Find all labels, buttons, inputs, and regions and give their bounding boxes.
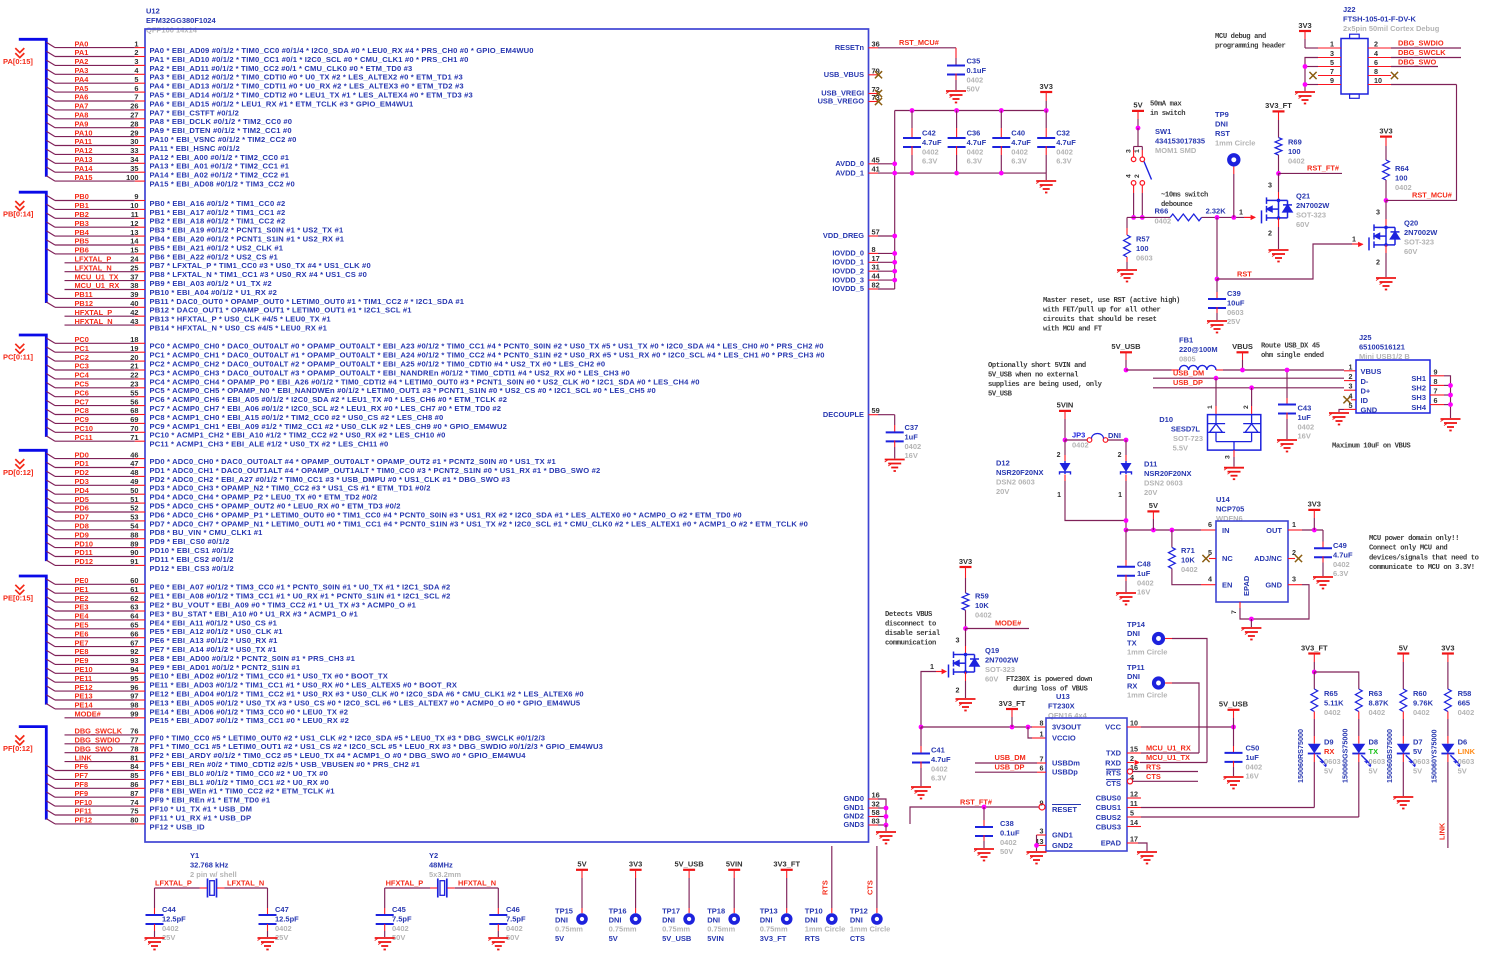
svg-text:93: 93 bbox=[130, 656, 138, 665]
svg-text:3: 3 bbox=[1225, 455, 1232, 459]
svg-text:PD9: PD9 bbox=[75, 530, 89, 539]
svg-text:CTS: CTS bbox=[1106, 779, 1121, 788]
svg-text:2: 2 bbox=[1057, 452, 1061, 459]
svg-text:2: 2 bbox=[1134, 174, 1141, 178]
svg-text:PA10 * EBI_VSNC #0/1/2 * TIM2_: PA10 * EBI_VSNC #0/1/2 * TIM2_CC2 #0 bbox=[150, 135, 297, 144]
svg-text:10: 10 bbox=[1130, 719, 1138, 728]
svg-text:MCU_U1_TX: MCU_U1_TX bbox=[1146, 753, 1190, 762]
svg-text:C35: C35 bbox=[967, 57, 981, 66]
net CTS wire to TP12 bbox=[876, 846, 878, 908]
svg-text:PB11 * DAC0_OUT0 * OPAMP_OUT0: PB11 * DAC0_OUT0 * OPAMP_OUT0 * LETIM0_O… bbox=[150, 297, 465, 306]
svg-text:PB8 * LFXTAL_N * TIM1_CC1 #3 *: PB8 * LFXTAL_N * TIM1_CC1 #3 * US0_RX #4… bbox=[150, 270, 368, 279]
svg-text:6: 6 bbox=[1434, 396, 1438, 405]
svg-text:PA3: PA3 bbox=[75, 66, 89, 75]
svg-text:FTSH-105-01-F-DV-K: FTSH-105-01-F-DV-K bbox=[1343, 15, 1417, 24]
svg-text:38: 38 bbox=[130, 281, 138, 290]
svg-text:PA6 * EBI_AD15 #0/1/2 * LEU1_R: PA6 * EBI_AD15 #0/1/2 * LEU1_RX #1 * ETM… bbox=[150, 99, 414, 108]
svg-text:0.75mm: 0.75mm bbox=[662, 925, 690, 934]
svg-text:PE5 * EBI_A12 #0/1/2 * US0_CLK: PE5 * EBI_A12 #0/1/2 * US0_CLK #1 bbox=[150, 627, 284, 636]
svg-text:Q20: Q20 bbox=[1404, 219, 1418, 228]
svg-text:PD7 * ADC0_CH7 * OPAMP_N1 * LE: PD7 * ADC0_CH7 * OPAMP_N1 * LETIM0_OUT1 … bbox=[150, 519, 809, 528]
bus PC chevron bbox=[15, 344, 24, 354]
svg-text:6.3V: 6.3V bbox=[922, 157, 937, 166]
svg-text:PB4: PB4 bbox=[75, 228, 90, 237]
svg-text:2: 2 bbox=[956, 686, 960, 695]
wire 3V3_FT rail to U13 bbox=[921, 726, 1032, 728]
svg-text:disable serial: disable serial bbox=[885, 630, 941, 638]
svg-text:USB_VBUS: USB_VBUS bbox=[824, 70, 864, 79]
wire Q19 gate to 3V3_FT rail bbox=[921, 672, 936, 728]
svg-text:AVDD_0: AVDD_0 bbox=[835, 159, 864, 168]
svg-text:PC3 * ACMP0_CH3 * DAC0_OUT0ALT: PC3 * ACMP0_CH3 * DAC0_OUT0ALT #3 * OPAM… bbox=[150, 368, 630, 377]
wire pin PF8 bbox=[46, 783, 55, 788]
svg-text:99: 99 bbox=[130, 710, 138, 719]
svg-text:PA11: PA11 bbox=[75, 137, 93, 146]
mcu U12 body bbox=[145, 29, 869, 842]
svg-text:3V3_FT: 3V3_FT bbox=[999, 699, 1026, 708]
svg-text:MCU_U1_TX: MCU_U1_TX bbox=[75, 272, 119, 281]
svg-text:CTS: CTS bbox=[865, 880, 874, 895]
net RST_MCU# wire from RESETn bbox=[878, 47, 956, 49]
wire GND pins trunk bbox=[878, 799, 886, 825]
svg-text:IOVDD_1: IOVDD_1 bbox=[832, 258, 864, 267]
svg-text:PF11: PF11 bbox=[75, 807, 92, 816]
svg-text:16: 16 bbox=[872, 791, 880, 800]
svg-text:PC0 * ACMP0_CH0 * DAC0_OUT0ALT: PC0 * ACMP0_CH0 * DAC0_OUT0ALT #0 * OPAM… bbox=[150, 342, 824, 351]
wire pin PC0 bbox=[46, 338, 55, 343]
wire pin PD1 bbox=[46, 462, 55, 467]
svg-text:7: 7 bbox=[1330, 67, 1334, 76]
wire pin MCU_U1_RX bbox=[65, 289, 135, 291]
no-connect X on USB_VREGI bbox=[875, 90, 882, 97]
svg-text:3V3: 3V3 bbox=[1298, 21, 1311, 30]
crystal Y1 bbox=[207, 879, 209, 898]
svg-text:27: 27 bbox=[130, 111, 138, 120]
wire TP14 to RXD bbox=[1172, 639, 1207, 763]
svg-text:5V: 5V bbox=[1133, 101, 1142, 110]
svg-text:FB1: FB1 bbox=[1179, 336, 1193, 345]
svg-text:TX: TX bbox=[1369, 747, 1379, 756]
testpoint TP18 bbox=[728, 913, 740, 925]
wire pin HFXTAL_N bbox=[65, 324, 135, 326]
svg-text:36: 36 bbox=[872, 39, 880, 48]
capacitor C46 7.5pF bbox=[497, 888, 499, 908]
bus PB chevron bbox=[15, 201, 24, 211]
svg-text:46: 46 bbox=[130, 450, 138, 459]
svg-text:14: 14 bbox=[1130, 818, 1138, 827]
svg-text:DBG_SWDIO: DBG_SWDIO bbox=[75, 736, 121, 745]
svg-text:2: 2 bbox=[1268, 229, 1272, 238]
svg-text:7: 7 bbox=[1040, 755, 1044, 764]
wire pin PA4 bbox=[46, 78, 55, 83]
svg-text:3: 3 bbox=[1376, 208, 1380, 217]
svg-text:USBDp: USBDp bbox=[1052, 768, 1078, 777]
svg-text:PD5: PD5 bbox=[75, 495, 89, 504]
svg-text:6.3V: 6.3V bbox=[1011, 157, 1026, 166]
svg-text:PC10 * ACMP1_CH2 * EBI_A10 #1/: PC10 * ACMP1_CH2 * EBI_A10 #1/2 * TIM2_C… bbox=[150, 431, 446, 440]
svg-text:12.5pF: 12.5pF bbox=[275, 914, 299, 923]
svg-text:1uF: 1uF bbox=[905, 432, 919, 441]
svg-text:PB[0:14]: PB[0:14] bbox=[3, 210, 34, 219]
wire pin PE13 bbox=[46, 695, 55, 700]
svg-text:PC11 * ACMP1_CH3 * EBI_ALE #1/: PC11 * ACMP1_CH3 * EBI_ALE #1/2 * US0_TX… bbox=[150, 440, 389, 449]
svg-text:6: 6 bbox=[1040, 764, 1044, 773]
svg-text:50mA max: 50mA max bbox=[1150, 101, 1182, 109]
svg-text:CBUS1: CBUS1 bbox=[1096, 803, 1121, 812]
svg-text:8: 8 bbox=[872, 245, 876, 254]
testpoint TP12 bbox=[871, 913, 883, 925]
wire pin PA11 bbox=[46, 140, 55, 145]
ground below C49 bbox=[1313, 577, 1333, 589]
wire pin PD3 bbox=[46, 480, 55, 485]
svg-text:PC9: PC9 bbox=[75, 415, 89, 424]
svg-text:5: 5 bbox=[1130, 809, 1134, 818]
svg-text:16V: 16V bbox=[1246, 772, 1259, 781]
svg-text:R60: R60 bbox=[1413, 689, 1427, 698]
svg-text:PE0 * EBI_A07 #0/1/2 * TIM3_CC: PE0 * EBI_A07 #0/1/2 * TIM3_CC0 #1 * PCN… bbox=[150, 583, 451, 592]
svg-text:50: 50 bbox=[130, 486, 138, 495]
svg-text:PA1 * EBI_AD10 #0/1/2 * TIM0_C: PA1 * EBI_AD10 #0/1/2 * TIM0_CC1 #0/1 * … bbox=[150, 55, 469, 64]
svg-text:20V: 20V bbox=[1144, 488, 1157, 497]
wire R71 to EN bbox=[1172, 569, 1201, 585]
svg-text:0402: 0402 bbox=[162, 924, 179, 933]
svg-text:PC5: PC5 bbox=[75, 380, 89, 389]
svg-text:RST_MCU#: RST_MCU# bbox=[899, 38, 939, 47]
svg-text:DBG_SWDIO: DBG_SWDIO bbox=[1398, 39, 1444, 48]
wire IOVDD_5 bbox=[878, 288, 895, 290]
svg-text:PB9 * EBI_A03 #0/1/2 * U1_TX #: PB9 * EBI_A03 #0/1/2 * U1_TX #2 bbox=[150, 279, 272, 288]
svg-text:Master reset, use RST (active: Master reset, use RST (active high) bbox=[1043, 297, 1180, 305]
wire D7 to ground bbox=[1402, 762, 1404, 796]
ground below J22 bbox=[1295, 92, 1315, 104]
svg-text:0402: 0402 bbox=[1288, 157, 1305, 166]
svg-text:DNI: DNI bbox=[850, 916, 863, 925]
svg-text:MCU debug and: MCU debug and bbox=[1215, 33, 1266, 41]
ground below U14 EPAD bbox=[1241, 628, 1261, 640]
svg-text:28: 28 bbox=[130, 119, 138, 128]
svg-text:PE14 * EBI_AD06 #0/1/2 * TIM3_: PE14 * EBI_AD06 #0/1/2 * TIM3_CC0 #0 * L… bbox=[150, 707, 349, 716]
wire pin PC7 bbox=[46, 400, 55, 405]
svg-text:NC: NC bbox=[1222, 554, 1233, 563]
ground below J25 shield bbox=[1441, 419, 1461, 431]
wire pin PB0 bbox=[46, 195, 55, 200]
svg-text:53: 53 bbox=[130, 513, 138, 522]
wire pin PA1 bbox=[46, 51, 55, 56]
wire pin PE0 bbox=[46, 579, 55, 584]
svg-text:PB4 * EBI_A20 #0/1/2 * PCNT1_S: PB4 * EBI_A20 #0/1/2 * PCNT1_S1IN #1 * U… bbox=[150, 235, 345, 244]
svg-text:J22: J22 bbox=[1343, 5, 1356, 14]
svg-text:PD0: PD0 bbox=[75, 450, 89, 459]
svg-text:5: 5 bbox=[134, 75, 138, 84]
svg-text:5V: 5V bbox=[1369, 767, 1378, 776]
svg-text:PD6 * ADC0_CH6 * OPAMP_P1 * LE: PD6 * ADC0_CH6 * OPAMP_P1 * LETIM0_OUT0 … bbox=[150, 510, 742, 519]
svg-text:20V: 20V bbox=[996, 487, 1009, 496]
wire U13 CBUS3 stub bbox=[1127, 826, 1141, 828]
wire pin PA10 bbox=[46, 131, 55, 136]
svg-text:TP17: TP17 bbox=[662, 907, 680, 916]
svg-text:SOT-323: SOT-323 bbox=[985, 665, 1015, 674]
svg-text:1: 1 bbox=[1352, 235, 1356, 244]
svg-text:92: 92 bbox=[130, 647, 138, 656]
wire pin PD9 bbox=[46, 533, 55, 538]
svg-text:8: 8 bbox=[1434, 377, 1438, 386]
svg-text:PB2: PB2 bbox=[75, 210, 89, 219]
no-connect X on USB_VBUS bbox=[875, 71, 882, 78]
net DBG_SWCLK wire bbox=[1391, 57, 1461, 59]
wire pin PD5 bbox=[46, 498, 55, 503]
svg-text:U13: U13 bbox=[1056, 692, 1070, 701]
wire D10 pin2 bbox=[1251, 388, 1253, 406]
svg-text:HFXTAL_N: HFXTAL_N bbox=[75, 317, 113, 326]
svg-text:434153017835: 434153017835 bbox=[1155, 137, 1205, 146]
svg-text:PC8 * ACMP1_CH0 * EBI_A15 #0/1: PC8 * ACMP1_CH0 * EBI_A15 #0/1/2 * TIM2_… bbox=[150, 413, 444, 422]
svg-text:PA13: PA13 bbox=[75, 155, 93, 164]
svg-text:PA8: PA8 bbox=[75, 111, 89, 120]
svg-text:PE[0:15]: PE[0:15] bbox=[3, 594, 34, 603]
svg-text:C39: C39 bbox=[1227, 289, 1241, 298]
svg-text:SOT-723: SOT-723 bbox=[1173, 434, 1203, 443]
bus PA chevron bbox=[15, 48, 24, 58]
svg-text:PD10 * EBI_CS1 #0/1/2: PD10 * EBI_CS1 #0/1/2 bbox=[150, 546, 234, 555]
wire input rail to U14 bbox=[1126, 529, 1201, 531]
svg-text:C50: C50 bbox=[1246, 744, 1260, 753]
bus PE chevron bbox=[15, 585, 24, 595]
svg-text:68: 68 bbox=[130, 406, 138, 415]
svg-text:76: 76 bbox=[130, 727, 138, 736]
wire U13 GND1 GND2 to ground bbox=[1037, 834, 1047, 836]
resistor R59 10K bbox=[962, 593, 969, 610]
svg-text:12: 12 bbox=[1130, 790, 1138, 799]
svg-text:R69: R69 bbox=[1288, 138, 1302, 147]
svg-text:9: 9 bbox=[1330, 76, 1334, 85]
svg-text:3V3: 3V3 bbox=[1441, 643, 1454, 652]
wire pin PD10 bbox=[46, 542, 55, 547]
svg-text:PB5 * EBI_A21 #0/1/2 * US2_CLK: PB5 * EBI_A21 #0/1/2 * US2_CLK #1 bbox=[150, 243, 284, 252]
svg-text:3V3_FT: 3V3_FT bbox=[1301, 643, 1328, 652]
wire R66 to Q21 gate bbox=[1202, 216, 1244, 218]
svg-text:88: 88 bbox=[130, 530, 138, 539]
svg-text:PA3 * EBI_AD12 #0/1/2 * TIM0_C: PA3 * EBI_AD12 #0/1/2 * TIM0_CDTI0 #0 * … bbox=[150, 73, 463, 82]
svg-text:USB_DM: USB_DM bbox=[995, 753, 1026, 762]
svg-text:2.32K: 2.32K bbox=[1206, 207, 1227, 216]
svg-text:MODE#: MODE# bbox=[75, 710, 101, 719]
svg-text:HFXTAL_P: HFXTAL_P bbox=[386, 878, 424, 887]
svg-text:0402: 0402 bbox=[275, 924, 292, 933]
resistor R64 100 bbox=[1383, 160, 1390, 180]
svg-text:PA4: PA4 bbox=[75, 75, 90, 84]
svg-text:29: 29 bbox=[130, 128, 138, 137]
svg-text:PD1 * ADC0_CH1 * DAC0_OUT1ALT: PD1 * ADC0_CH1 * DAC0_OUT1ALT #4 * OPAMP… bbox=[150, 466, 601, 475]
svg-text:3: 3 bbox=[1330, 49, 1334, 58]
wire IOVDD bbox=[878, 261, 895, 263]
svg-text:PE2 * BU_VOUT * EBI_A09 #0 * T: PE2 * BU_VOUT * EBI_A09 #0 * TIM3_CC2 #1… bbox=[150, 601, 417, 610]
svg-text:PB12: PB12 bbox=[75, 299, 94, 308]
svg-text:75: 75 bbox=[130, 807, 138, 816]
svg-text:9: 9 bbox=[134, 192, 138, 201]
no-connect X J22 pin8 bbox=[1391, 72, 1398, 79]
svg-text:RST_FT#: RST_FT# bbox=[1307, 164, 1339, 173]
svg-text:98: 98 bbox=[130, 701, 138, 710]
wire AVDD trunk bbox=[894, 111, 896, 290]
svg-text:78: 78 bbox=[130, 744, 138, 753]
wire pin PD12 bbox=[46, 560, 55, 565]
svg-text:PF[0:12]: PF[0:12] bbox=[3, 744, 33, 753]
svg-text:PC6: PC6 bbox=[75, 388, 89, 397]
svg-text:DSN2 0603: DSN2 0603 bbox=[1144, 479, 1183, 488]
svg-text:PF10 * U1_TX #1 * USB_DM: PF10 * U1_TX #1 * USB_DM bbox=[150, 805, 253, 814]
ground below C50 bbox=[1224, 777, 1244, 789]
wire pin DBG_SWCLK bbox=[65, 734, 135, 736]
svg-text:GND: GND bbox=[1265, 581, 1282, 590]
svg-text:R59: R59 bbox=[975, 592, 989, 601]
svg-text:PE13 * EBI_AD05 #0/1/2 * US0_T: PE13 * EBI_AD05 #0/1/2 * US0_TX #3 * US0… bbox=[150, 698, 581, 707]
svg-text:PD9 * EBI_CS0 #0/1/2: PD9 * EBI_CS0 #0/1/2 bbox=[150, 537, 230, 546]
svg-text:VCCIO: VCCIO bbox=[1052, 734, 1076, 743]
wire U13 RXD to TP14 bbox=[1135, 760, 1140, 765]
svg-text:R57: R57 bbox=[1136, 235, 1150, 244]
svg-text:D10: D10 bbox=[1159, 415, 1173, 424]
wire pin PB1 bbox=[46, 204, 55, 209]
svg-text:ID: ID bbox=[1361, 396, 1369, 405]
svg-text:77: 77 bbox=[130, 736, 138, 745]
svg-text:82: 82 bbox=[872, 281, 880, 290]
svg-text:PE7 * EBI_A14 #0/1/2 * US0_TX: PE7 * EBI_A14 #0/1/2 * US0_TX #1 bbox=[150, 645, 278, 654]
wire pin PD0 bbox=[46, 453, 55, 458]
svg-text:64: 64 bbox=[130, 612, 139, 621]
resistor R71 10K bbox=[1171, 530, 1173, 547]
svg-text:PB10 * EBI_A04 #0/1/2 * U1_RX: PB10 * EBI_A04 #0/1/2 * U1_RX #2 bbox=[150, 288, 278, 297]
svg-text:PA9 * EBI_DTEN #0/1/2 * TIM2_: PA9 * EBI_DTEN #0/1/2 * TIM2_CC1 #0 bbox=[150, 126, 292, 135]
svg-text:PC8: PC8 bbox=[75, 406, 89, 415]
svg-text:PF7: PF7 bbox=[75, 771, 89, 780]
svg-text:PA14 * EBI_A02 #0/1/2 * TIM2_C: PA14 * EBI_A02 #0/1/2 * TIM2_CC2 #1 bbox=[150, 171, 290, 180]
wire VDD_DREG bbox=[878, 235, 895, 237]
wire 3V3_FT to R63 bbox=[1314, 672, 1359, 689]
svg-text:0402: 0402 bbox=[1324, 708, 1341, 717]
ground below D10 bbox=[1224, 468, 1244, 480]
svg-text:C43: C43 bbox=[1298, 404, 1312, 413]
wire pin PE7 bbox=[46, 641, 55, 646]
svg-text:CTS: CTS bbox=[1146, 772, 1161, 781]
capacitor C36 4.7uF bbox=[954, 108, 959, 113]
wire pin PE2 bbox=[46, 597, 55, 602]
svg-text:1mm Circle: 1mm Circle bbox=[1215, 139, 1255, 148]
svg-text:70: 70 bbox=[130, 424, 138, 433]
svg-text:EPAD: EPAD bbox=[1242, 575, 1251, 596]
svg-text:0402: 0402 bbox=[1298, 422, 1315, 431]
wire J22 pins 3-5-9 to ground bbox=[1305, 58, 1318, 92]
svg-text:0402: 0402 bbox=[967, 75, 984, 84]
svg-text:supplies are being used, only: supplies are being used, only bbox=[988, 381, 1103, 389]
svg-text:0603: 0603 bbox=[1324, 757, 1341, 766]
svg-text:2: 2 bbox=[1376, 258, 1380, 267]
svg-text:IN: IN bbox=[1222, 526, 1230, 535]
wire pin PF12 bbox=[46, 819, 55, 824]
wire cap bottom rail bbox=[895, 172, 1046, 174]
wire pin PC1 bbox=[46, 347, 55, 352]
svg-text:95: 95 bbox=[130, 674, 138, 683]
svg-text:R65: R65 bbox=[1324, 689, 1338, 698]
net MODE# wire bbox=[966, 628, 1030, 630]
svg-text:3: 3 bbox=[1292, 575, 1296, 584]
svg-text:in switch: in switch bbox=[1150, 110, 1185, 118]
svg-text:1: 1 bbox=[1040, 730, 1044, 739]
ground below C43 bbox=[1277, 440, 1297, 452]
svg-text:8.87K: 8.87K bbox=[1369, 699, 1390, 708]
testpoint TP17 bbox=[683, 913, 695, 925]
wire D12 to input rail bbox=[1065, 481, 1126, 521]
svg-text:34: 34 bbox=[130, 155, 139, 164]
svg-text:4.7uF: 4.7uF bbox=[1333, 550, 1353, 559]
svg-text:AVDD_1: AVDD_1 bbox=[835, 168, 864, 177]
svg-text:4.7uF: 4.7uF bbox=[922, 138, 942, 147]
svg-text:USB_DP: USB_DP bbox=[995, 762, 1025, 771]
resistor R60 9.76K bbox=[1400, 689, 1407, 712]
svg-text:PF7 * EBI_BL1 #0/1/2 * TIM0_CC: PF7 * EBI_BL1 #0/1/2 * TIM0_CC1 #2 * U0_… bbox=[150, 778, 329, 787]
svg-text:programming header: programming header bbox=[1215, 43, 1286, 51]
svg-text:19: 19 bbox=[130, 344, 138, 353]
svg-text:31: 31 bbox=[872, 263, 880, 272]
svg-text:2: 2 bbox=[1243, 405, 1250, 409]
svg-text:150060RS75000: 150060RS75000 bbox=[1296, 729, 1305, 783]
wire pin PA2 bbox=[46, 60, 55, 65]
svg-text:PA7 * EBI_CSTFT #0/1/2: PA7 * EBI_CSTFT #0/1/2 bbox=[150, 108, 239, 117]
svg-text:100: 100 bbox=[1395, 174, 1408, 183]
svg-text:0402: 0402 bbox=[975, 611, 992, 620]
led D9 bbox=[1313, 712, 1315, 720]
svg-text:PB0 * EBI_A16 #0/1/2 * TIM1_CC: PB0 * EBI_A16 #0/1/2 * TIM1_CC0 #2 bbox=[150, 199, 286, 208]
mcu inside pin functions port PA bbox=[150, 46, 534, 189]
svg-text:PB6: PB6 bbox=[75, 246, 89, 255]
svg-text:RESET: RESET bbox=[1052, 805, 1077, 814]
svg-text:47: 47 bbox=[130, 459, 138, 468]
svg-text:C46: C46 bbox=[506, 905, 520, 914]
net DBG_SWDIO wire bbox=[1391, 47, 1461, 49]
svg-text:5V_USB: 5V_USB bbox=[988, 391, 1013, 399]
wire U13 VCC to 5V_USB bbox=[1127, 726, 1141, 728]
wire D11 to input rail bbox=[1125, 481, 1127, 530]
svg-text:MCU_U1_RX: MCU_U1_RX bbox=[1146, 743, 1191, 752]
svg-text:94: 94 bbox=[130, 665, 139, 674]
svg-text:3V3_FT: 3V3_FT bbox=[760, 934, 787, 943]
svg-text:IOVDD_0: IOVDD_0 bbox=[832, 249, 864, 258]
svg-text:3: 3 bbox=[1349, 382, 1353, 391]
bus PB line bbox=[19, 192, 47, 303]
svg-text:9: 9 bbox=[1040, 799, 1044, 808]
svg-text:PF9: PF9 bbox=[75, 789, 89, 798]
svg-text:PE7: PE7 bbox=[75, 638, 89, 647]
svg-text:0603: 0603 bbox=[1413, 757, 1430, 766]
wire pin PE8 bbox=[46, 650, 55, 655]
svg-text:PE4 * EBI_A11 #0/1/2 * US0_CS: PE4 * EBI_A11 #0/1/2 * US0_CS #1 bbox=[150, 618, 278, 627]
wire D10 pin3 to ground bbox=[1233, 450, 1235, 457]
svg-text:EN: EN bbox=[1222, 581, 1232, 590]
svg-text:PD10: PD10 bbox=[75, 539, 94, 548]
svg-text:PB6 * EBI_A22 #0/1/2 * US2_CS: PB6 * EBI_A22 #0/1/2 * US2_CS #1 bbox=[150, 252, 279, 261]
svg-text:TP11: TP11 bbox=[1127, 663, 1145, 672]
bus PC line bbox=[19, 335, 47, 437]
svg-text:5V: 5V bbox=[577, 860, 586, 869]
svg-text:D7: D7 bbox=[1413, 738, 1423, 747]
svg-text:ADJ/NC: ADJ/NC bbox=[1254, 554, 1283, 563]
svg-text:1: 1 bbox=[1207, 405, 1214, 409]
svg-text:TP14: TP14 bbox=[1127, 620, 1146, 629]
svg-text:0402: 0402 bbox=[1246, 762, 1263, 771]
capacitor C49 4.7uF bbox=[1322, 530, 1324, 542]
ground below C38 bbox=[974, 849, 994, 861]
svg-text:PE14: PE14 bbox=[75, 701, 94, 710]
svg-text:50V: 50V bbox=[967, 85, 980, 94]
